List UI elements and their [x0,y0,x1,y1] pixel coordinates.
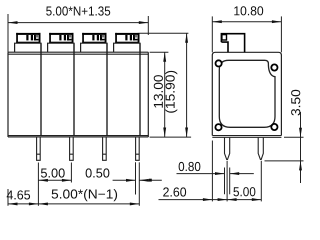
pole divider 1 [40,43,42,135]
dot terminator on 0.50 tail [149,179,152,182]
extension line side pin right center [260,161,262,202]
dimension 4.65 [8,202,18,205]
front body outline [8,52,148,137]
dimension 5.00*N+1.35 top [8,14,148,52]
extension line pin4 right edge [138,162,140,206]
side pin left [225,138,230,160]
extension line side pin left center [226,161,228,202]
pole divider 4 [139,43,141,135]
front body bottom edge line 1 [8,135,148,137]
lever tab slot square [222,35,227,40]
front body top edge line 2 [8,53,148,55]
dimension 3.50 right [265,112,304,183]
extension line pin2 center [70,163,72,183]
collar pole 4 [114,43,140,52]
dimension 10.80 top [212,16,281,52]
lever tab top [221,34,244,53]
pole divider 2 [73,43,75,135]
collar pole 3 [81,43,107,52]
extension line body left bottom [7,189,9,206]
dimension 5.00 pin pitch [38,179,71,181]
collar pole 1 [15,43,41,52]
solder pin 2 front [70,137,74,160]
dimension 13.00 right [150,52,192,137]
dimension 5.00 side pin pitch [227,198,237,201]
front body bottom edge line 2 [8,136,148,138]
side inner cover outline with notch [219,60,275,127]
solder pin 3 front [103,137,107,160]
side body outer outline [212,52,281,135]
side body bottom line 2 [212,136,281,138]
extension line side pin left edges [224,168,226,195]
dimension 2.60 [159,199,262,201]
extension line side body left bottom [211,141,213,202]
corner hole bottom-left [215,124,221,130]
extension line pin1 center [37,163,39,206]
solder pin 1 front [37,137,41,160]
dimension (15.90) right [140,33,189,137]
clamp cap pole 4 [115,33,139,43]
collar pole 2 [48,43,74,52]
dimension 0.80 pin thickness [177,173,225,175]
clamp cap pole 2 [49,33,73,43]
extension line pin4 left edge [135,162,137,194]
corner hole bottom-right [271,124,277,130]
clamp cap pole 1 [16,33,40,43]
clamp cap pole 3 [82,33,106,43]
side pin right [258,138,263,160]
dimension 5.00*(N-1) [8,203,139,205]
side body bottom line 1 [212,135,281,137]
corner hole top-left [216,60,222,66]
solder pin 4 front [136,137,140,160]
dimension 0.50 pin width [126,179,136,182]
front body top edge line 1 [8,51,148,53]
corner hole top-right [271,64,277,70]
pole divider 3 [106,43,108,135]
